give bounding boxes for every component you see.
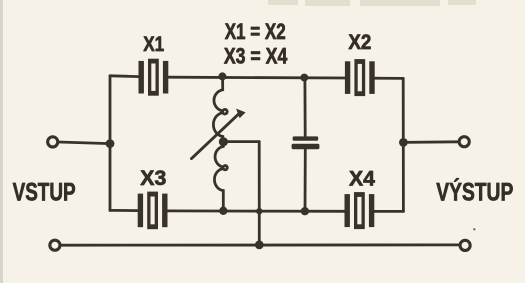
wire: inductor tap vertical to bottom rail [258,142,261,245]
node: inductor centre tap [219,137,228,146]
terminal: input top [48,137,58,147]
terminal: input bottom [50,240,60,250]
svg-text:X4: X4 [349,167,375,191]
node: tap wire crossing X3 row [256,208,262,214]
crystal X1 [139,59,169,96]
node: inductor bottom [219,207,227,215]
terminal: output bottom [460,240,470,250]
variable-inductor arrow [192,109,246,159]
node: tap wire on bottom rail [255,241,264,250]
wire: input stub [59,142,111,144]
capacitor C1 [292,136,320,149]
wire: top row right segment (X2 to right corner) [373,77,404,80]
wire: top row left segment (left corner to X1) [110,74,140,78]
svg-text:VSTUP: VSTUP [13,179,76,207]
node: right output junction [399,138,408,147]
wire: X3 row middle segment [168,209,346,212]
svg-text:X1 = X2: X1 = X2 [225,19,286,44]
wire: X3 row left segment [110,209,139,212]
wire: capacitor top lead [303,78,306,137]
wire: bottom rail [61,243,460,246]
wire: output stub [403,140,458,143]
crystal X2 [345,59,375,96]
node: left input junction [106,139,115,148]
wire: inductor tap horizontal [223,140,259,143]
crystal X3 [138,192,168,230]
wire: top row middle segment (X1 to X2) [168,76,347,80]
svg-text:VÝSTUP: VÝSTUP [436,176,513,206]
crystal X4 [345,192,375,229]
svg-text:X3: X3 [140,166,166,190]
svg-text:X3 = X4: X3 = X4 [224,44,288,69]
terminal: output top [459,137,469,147]
wire: X4 row right segment [374,210,404,213]
node: capacitor top [300,74,308,82]
inductor L1 (variable, tapped) [213,76,227,210]
wire: left vertical branch [109,76,112,211]
svg-text:X1: X1 [143,32,164,56]
node: capacitor bottom [301,207,309,215]
node: inductor top [218,72,226,80]
svg-text:X2: X2 [348,30,371,54]
wire: right vertical branch [402,78,405,211]
wire: capacitor bottom lead [304,149,307,211]
